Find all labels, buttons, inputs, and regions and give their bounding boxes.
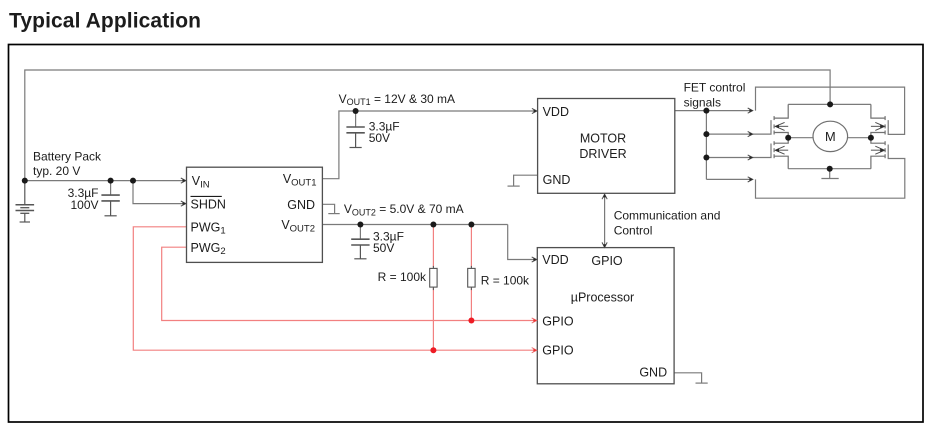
- svg-text:VDD: VDD: [543, 105, 569, 119]
- svg-text:R = 100k: R = 100k: [481, 274, 530, 288]
- svg-text:DRIVER: DRIVER: [579, 147, 626, 161]
- svg-text:Control: Control: [614, 223, 653, 237]
- svg-text:VDD: VDD: [542, 253, 568, 267]
- svg-text:100V: 100V: [70, 198, 98, 212]
- svg-text:typ. 20 V: typ. 20 V: [33, 164, 80, 178]
- svg-text:50V: 50V: [373, 241, 394, 255]
- svg-text:SHDN: SHDN: [191, 197, 226, 211]
- svg-text:signals: signals: [684, 95, 721, 109]
- svg-text:50V: 50V: [369, 131, 390, 145]
- svg-text:GND: GND: [543, 173, 571, 187]
- svg-text:GND: GND: [639, 366, 667, 380]
- svg-text:GPIO: GPIO: [591, 254, 623, 268]
- svg-text:M: M: [825, 129, 836, 144]
- svg-text:Communication and: Communication and: [614, 209, 721, 223]
- svg-text:GPIO: GPIO: [542, 344, 574, 358]
- svg-text:Typical Application: Typical Application: [9, 10, 201, 33]
- svg-text:GPIO: GPIO: [542, 314, 574, 328]
- svg-text:Battery Pack: Battery Pack: [33, 149, 102, 163]
- svg-text:FET control: FET control: [684, 81, 746, 95]
- svg-text:MOTOR: MOTOR: [580, 132, 626, 146]
- svg-text:GND: GND: [287, 198, 315, 212]
- svg-text:µProcessor: µProcessor: [571, 291, 634, 305]
- svg-text:R = 100k: R = 100k: [378, 270, 427, 284]
